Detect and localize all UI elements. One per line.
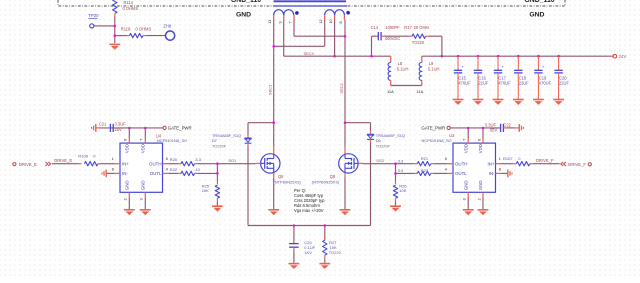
svg-text:VDD: VDD: [141, 144, 146, 153]
svg-text:470UF: 470UF: [498, 80, 511, 85]
svg-text:OUTH: OUTH: [455, 161, 467, 166]
svg-text:GND: GND: [463, 180, 468, 190]
svg-text:VDD: VDD: [463, 144, 468, 153]
svg-text:400VDC: 400VDC: [385, 36, 401, 41]
svg-text:VDD: VDD: [125, 144, 130, 153]
svg-text:SEC3: SEC3: [304, 51, 314, 56]
svg-text:9: 9: [278, 21, 282, 23]
svg-text:22UF: 22UF: [559, 80, 570, 85]
svg-text:R20: R20: [170, 157, 178, 162]
svg-text:IN-: IN-: [489, 171, 495, 176]
svg-text:6: 6: [124, 139, 128, 141]
svg-text:TP20: TP20: [88, 13, 99, 18]
svg-text:GND_110: GND_110: [524, 0, 554, 4]
svg-text:ZH9: ZH9: [163, 24, 171, 29]
svg-text:6: 6: [477, 139, 481, 141]
svg-text:NCP5101NA_SO: NCP5101NA_SO: [422, 138, 452, 143]
svg-text:R21: R21: [421, 156, 429, 161]
svg-text:IN+: IN+: [122, 161, 129, 166]
svg-text:10: 10: [195, 167, 200, 172]
svg-text:35V: 35V: [490, 128, 498, 133]
svg-text:C14: C14: [371, 25, 379, 30]
svg-text:5.1UH: 5.1UH: [397, 67, 409, 72]
svg-text:OUTH: OUTH: [149, 161, 161, 166]
svg-text:IN+: IN+: [488, 161, 495, 166]
svg-text:0 OHMS: 0 OHMS: [123, 6, 139, 11]
svg-text:GND: GND: [529, 12, 544, 19]
svg-text:5: 5: [166, 157, 168, 161]
svg-text:11A: 11A: [417, 89, 424, 94]
svg-text:C21: C21: [99, 122, 107, 127]
svg-text:L9: L9: [429, 61, 434, 66]
svg-text:VDD: VDD: [478, 144, 483, 153]
svg-text:10K: 10K: [202, 188, 209, 193]
svg-text:2: 2: [124, 198, 128, 200]
svg-text:GATE_PWR: GATE_PWR: [421, 126, 445, 131]
svg-text:DRIVE_E: DRIVE_E: [19, 162, 37, 167]
svg-text:5: 5: [445, 157, 447, 161]
svg-text:7: 7: [140, 139, 144, 141]
svg-text:C22: C22: [503, 123, 511, 128]
svg-text:IN-: IN-: [122, 171, 128, 176]
svg-text:R119: R119: [121, 27, 131, 32]
svg-text:R107: R107: [503, 156, 513, 161]
svg-text:SG2: SG2: [376, 158, 384, 163]
svg-text:DRIVE_F: DRIVE_F: [536, 158, 554, 163]
svg-text:1000PF: 1000PF: [385, 25, 400, 30]
svg-text:7: 7: [463, 139, 467, 141]
svg-text:+: +: [461, 64, 464, 69]
svg-text:470UF: 470UF: [539, 80, 552, 85]
svg-text:3.3: 3.3: [195, 157, 201, 162]
svg-text:GND: GND: [236, 12, 251, 19]
svg-text:DRIVE_F: DRIVE_F: [568, 162, 586, 167]
svg-text:8: 8: [339, 21, 343, 23]
svg-text:12: 12: [319, 19, 323, 23]
svg-text:1: 1: [499, 157, 501, 161]
svg-text:(NTP60N25X3): (NTP60N25X3): [273, 179, 301, 184]
svg-text:TO220F: TO220F: [212, 143, 227, 148]
svg-text:3: 3: [140, 198, 144, 200]
svg-text:GND: GND: [478, 180, 483, 190]
svg-text:SG1: SG1: [228, 158, 236, 163]
svg-text:GND_110: GND_110: [231, 0, 261, 4]
svg-text:4: 4: [166, 167, 168, 171]
svg-text:GATE_PWR: GATE_PWR: [168, 126, 192, 131]
svg-text:2: 2: [477, 198, 481, 200]
svg-text:OUTL: OUTL: [455, 171, 467, 176]
svg-text:R108: R108: [78, 154, 88, 159]
svg-text:22UF: 22UF: [519, 80, 530, 85]
svg-text:20 OHM: 20 OHM: [414, 25, 430, 30]
svg-text:3.3: 3.3: [398, 168, 404, 173]
svg-text:4: 4: [445, 167, 447, 171]
svg-text:TO220F: TO220F: [376, 143, 391, 148]
svg-text:R23: R23: [421, 168, 429, 173]
svg-text:R17: R17: [404, 25, 412, 30]
svg-text:10: 10: [329, 19, 333, 23]
svg-text:R22: R22: [170, 167, 178, 172]
svg-text:GND: GND: [125, 180, 130, 190]
svg-text:SEC1: SEC1: [268, 85, 273, 95]
svg-text:8: 8: [499, 167, 501, 171]
svg-text:1: 1: [112, 157, 114, 161]
svg-text:+: +: [501, 64, 504, 69]
svg-text:1KV: 1KV: [304, 250, 312, 255]
svg-text:10K: 10K: [399, 188, 406, 193]
svg-text:24V: 24V: [619, 54, 627, 59]
svg-text:5.1UH: 5.1UH: [428, 67, 440, 72]
svg-text:11A: 11A: [387, 89, 394, 94]
svg-text:NCP5101NA_SO: NCP5101NA_SO: [157, 138, 187, 143]
svg-text:R114: R114: [124, 0, 134, 5]
svg-text:7: 7: [288, 21, 292, 23]
svg-text:OUTL: OUTL: [150, 171, 162, 176]
svg-text:22UF: 22UF: [478, 80, 489, 85]
svg-text:0 OHMS: 0 OHMS: [136, 27, 152, 32]
svg-text:L8: L8: [398, 61, 403, 66]
svg-text:470UF: 470UF: [458, 80, 471, 85]
svg-text:TO220: TO220: [329, 250, 342, 255]
svg-text:GND: GND: [141, 180, 146, 190]
svg-text:SEC2: SEC2: [339, 83, 344, 93]
svg-text:DRIVE_E: DRIVE_E: [54, 158, 72, 163]
svg-text:TO220: TO220: [412, 40, 425, 45]
svg-text:3.3: 3.3: [398, 158, 404, 163]
svg-text:25V: 25V: [115, 127, 123, 132]
svg-text:Vgs max +/-20V: Vgs max +/-20V: [294, 208, 324, 213]
svg-text:3: 3: [463, 198, 467, 200]
svg-text:8: 8: [112, 167, 114, 171]
svg-text:(NTP60N25X3): (NTP60N25X3): [312, 179, 340, 184]
svg-text:+: +: [542, 64, 545, 69]
svg-text:11: 11: [268, 20, 272, 24]
